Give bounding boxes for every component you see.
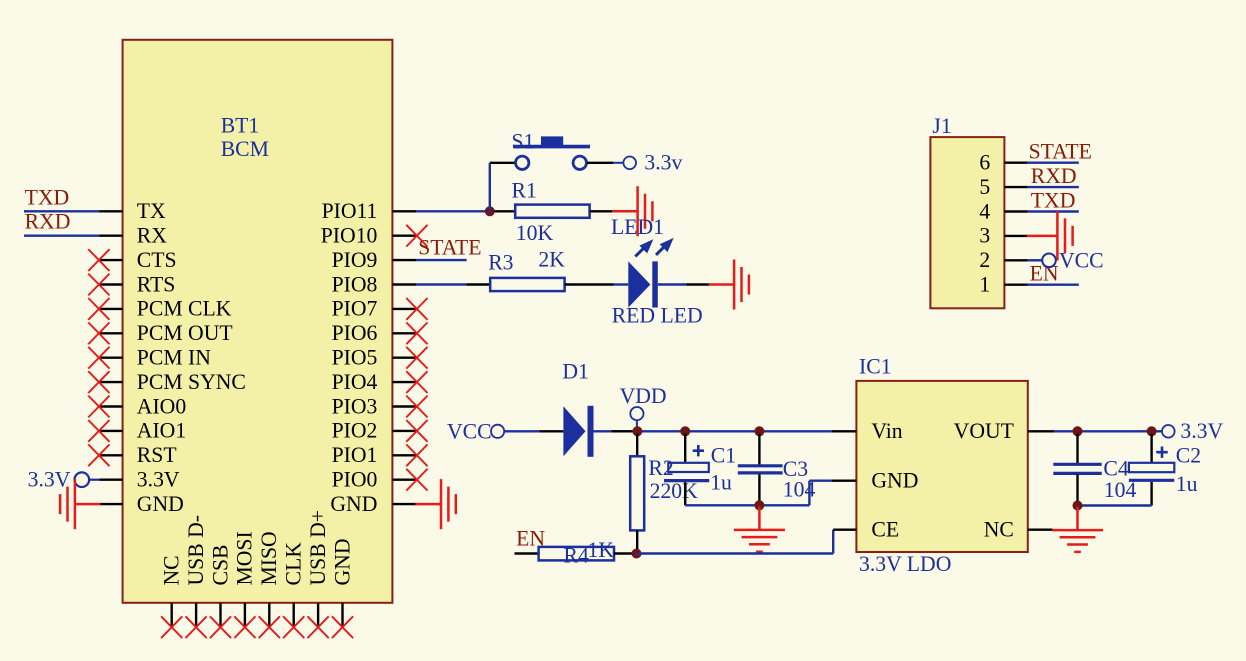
no-connect X on PIO4: [406, 371, 427, 393]
pin CSB (BT1 bottom): [208, 545, 232, 627]
svg-text:MISO: MISO: [257, 531, 281, 585]
svg-text:PIO6: PIO6: [332, 321, 378, 345]
no-connect X on AIO0: [88, 396, 109, 418]
pin PIO6 (BT1 right): [332, 321, 417, 345]
capacitor C2 (polarized): [1129, 444, 1201, 481]
pin 1 (J1): [979, 273, 1027, 297]
pin 2 (J1): [979, 248, 1027, 272]
wire junction to CE pin: [637, 530, 834, 554]
svg-text:4: 4: [979, 199, 990, 223]
pin USB D- (BT1 bottom): [184, 515, 208, 627]
no-connect X on PIO10: [406, 225, 427, 247]
svg-text:MOSI: MOSI: [233, 531, 257, 585]
svg-text:GND: GND: [137, 492, 184, 516]
power port VCC (J1 pin 2): [1028, 248, 1104, 272]
node junction C4/C2 ground: [1073, 501, 1083, 511]
svg-text:PIO10: PIO10: [321, 224, 378, 248]
svg-text:STATE: STATE: [1029, 140, 1092, 164]
svg-text:CSB: CSB: [208, 545, 232, 586]
wire C2 down to ground rail: [1078, 482, 1152, 506]
no-connect X on RTS: [88, 274, 109, 296]
pin PIO4 (BT1 right): [332, 370, 417, 394]
pin NC (IC1): [984, 518, 1053, 542]
pin PIO11 (BT1 right): [322, 199, 417, 223]
no-connect X on bottom GND: [332, 616, 353, 638]
pin AIO0 (BT1 left): [100, 394, 187, 418]
svg-text:PIO5: PIO5: [332, 346, 378, 370]
svg-text:PCM CLK: PCM CLK: [137, 297, 232, 321]
svg-text:1: 1: [979, 273, 990, 297]
net label TXD + wire (J1 pin 4): [1028, 188, 1079, 212]
no-connect X on RST: [88, 444, 109, 466]
svg-text:VDD: VDD: [620, 384, 667, 408]
net label EN + wire: [515, 527, 546, 554]
pin RTS (BT1 left): [100, 272, 176, 296]
node junction at R1/S1 tap: [485, 206, 495, 216]
no-connect X on PIO0: [406, 469, 427, 491]
svg-text:10K: 10K: [516, 221, 554, 245]
no-connect X on PIO2: [406, 420, 427, 442]
svg-text:PCM IN: PCM IN: [137, 346, 211, 370]
pin RST (BT1 left): [100, 443, 177, 467]
svg-text:3.3V: 3.3V: [1180, 419, 1223, 443]
pin 4 (J1): [979, 199, 1027, 223]
svg-text:3.3V: 3.3V: [28, 468, 71, 492]
value 104: [783, 478, 816, 502]
svg-text:GND: GND: [330, 539, 354, 586]
svg-text:TX: TX: [137, 199, 166, 223]
wire C3 down to ground rail: [758, 475, 760, 506]
IC IC1 body (3.3V LDO): [856, 355, 1027, 576]
svg-text:D1: D1: [562, 359, 589, 383]
pin GND (BT1 left): [100, 492, 184, 516]
IC BT1 (BCM Bluetooth module) body: [123, 40, 393, 603]
no-connect X on bottom USB D-: [186, 616, 207, 638]
wire R1 to ground: [590, 210, 613, 212]
svg-text:1u: 1u: [710, 470, 732, 494]
svg-text:GND: GND: [871, 469, 918, 493]
pin PIO1 (BT1 right): [332, 443, 417, 467]
svg-text:3.3v: 3.3v: [644, 151, 682, 175]
pin CLK (BT1 bottom): [282, 542, 306, 627]
value 10K: [516, 221, 554, 245]
svg-text:C1: C1: [711, 443, 736, 467]
wire R3 to LED1: [565, 283, 629, 285]
ground (BT1 left GND pin): [60, 479, 100, 529]
svg-text:GND: GND: [330, 492, 377, 516]
svg-text:PIO1: PIO1: [332, 443, 378, 467]
wire S1 to 3.3v terminal: [587, 162, 623, 164]
svg-text:AIO1: AIO1: [137, 419, 186, 443]
wire ground rail (C1-C3-IC1 GND): [685, 481, 832, 506]
capacitor C4: [1053, 457, 1129, 481]
pin MISO (BT1 bottom): [257, 531, 281, 626]
pin NC (BT1 bottom): [160, 555, 184, 626]
svg-text:5: 5: [979, 175, 990, 199]
svg-text:RED LED: RED LED: [612, 303, 703, 327]
svg-text:PIO4: PIO4: [332, 370, 378, 394]
value 2K: [538, 248, 565, 272]
capacitor C3: [738, 457, 808, 481]
pin PIO5 (BT1 right): [332, 346, 417, 370]
pin PCM OUT (BT1 left): [100, 321, 233, 345]
wire D1 to Vin rail: [594, 430, 832, 432]
ground (right of R1): [612, 186, 652, 236]
svg-text:PIO7: PIO7: [332, 297, 378, 321]
svg-text:PIO0: PIO0: [332, 468, 378, 492]
pin PCM CLK (BT1 left): [100, 297, 232, 321]
pin AIO1 (BT1 left): [100, 419, 187, 443]
ground (right of LED1): [709, 260, 749, 310]
svg-text:USB D-: USB D-: [184, 515, 208, 586]
svg-text:TXD: TXD: [25, 185, 70, 209]
svg-text:1K: 1K: [588, 538, 615, 562]
wire VCC to D1: [504, 430, 563, 432]
wire junction to R1: [494, 210, 515, 212]
LED LED1: [611, 215, 703, 327]
no-connect X on bottom MISO: [259, 616, 280, 638]
pin PIO8 (BT1 right): [332, 272, 417, 296]
power port VDD: [620, 384, 667, 427]
power port 3.3v (button pullup): [623, 151, 682, 175]
value 1K: [588, 538, 615, 562]
svg-text:CLK: CLK: [282, 542, 306, 586]
pin PIO7 (BT1 right): [332, 297, 417, 321]
no-connect X on PCM CLK: [88, 298, 109, 320]
ground (BT1 right GND pin): [415, 479, 455, 529]
svg-text:STATE: STATE: [418, 235, 481, 259]
svg-text:3.3V: 3.3V: [137, 468, 180, 492]
svg-text:RX: RX: [137, 224, 167, 248]
wire C4 down to ground: [1076, 474, 1078, 506]
svg-text:PIO11: PIO11: [322, 199, 378, 223]
pin USB D+ (BT1 bottom): [306, 510, 330, 627]
ground (below C4/C2, NC pin): [1052, 507, 1103, 552]
no-connect X on PIO5: [406, 347, 427, 369]
pin MOSI (BT1 bottom): [233, 531, 257, 626]
wire C1 down to ground rail: [684, 482, 686, 505]
svg-text:NC: NC: [984, 518, 1014, 542]
wire PIO8 to R3: [416, 283, 490, 285]
net label RXD + wire: [24, 210, 100, 236]
svg-text:CTS: CTS: [137, 248, 177, 272]
svg-text:RXD: RXD: [25, 210, 71, 234]
no-connect X on PIO1: [406, 444, 427, 466]
value 220K: [650, 479, 699, 503]
svg-text:S1: S1: [512, 129, 535, 153]
resistor R4: [539, 543, 614, 567]
no-connect X on AIO1: [88, 420, 109, 442]
node junction rail / C1: [680, 426, 690, 436]
svg-text:RXD: RXD: [1031, 164, 1077, 188]
node junction R2/R4/CE: [632, 549, 642, 559]
no-connect X on PIO6: [406, 322, 427, 344]
no-connect X on PCM SYNC: [88, 371, 109, 393]
wire PIO11 to junction: [416, 210, 489, 212]
switch S1: [512, 129, 591, 169]
pin VOUT (IC1): [954, 419, 1054, 443]
no-connect X on bottom CLK: [283, 616, 304, 638]
svg-text:2K: 2K: [538, 248, 565, 272]
node junction rail / C3: [754, 426, 764, 436]
diode D1: [562, 359, 593, 457]
wire junction up to S1: [490, 163, 516, 213]
no-connect X on CTS: [88, 249, 109, 271]
svg-text:3.3V LDO: 3.3V LDO: [859, 552, 951, 576]
svg-text:RTS: RTS: [137, 272, 175, 296]
no-connect X on bottom CSB: [210, 616, 231, 638]
pin GND (IC1): [832, 469, 919, 493]
power port VCC (left of D1): [447, 419, 504, 443]
net label TXD + wire: [24, 185, 100, 211]
ground (J1 pin 3): [1027, 211, 1073, 260]
svg-text:J1: J1: [932, 114, 951, 138]
svg-text:PCM OUT: PCM OUT: [137, 321, 233, 345]
pin RX (BT1 left): [100, 224, 168, 248]
resistor R3: [488, 251, 564, 291]
wire VOUT down to C2: [1150, 434, 1152, 463]
pin PIO9 (BT1 right): [332, 248, 417, 272]
pin PCM SYNC (BT1 left): [100, 370, 246, 394]
svg-text:PIO9: PIO9: [332, 248, 378, 272]
svg-text:TXD: TXD: [1031, 188, 1076, 212]
resistor R2: [630, 456, 674, 530]
pin PIO3 (BT1 right): [332, 394, 417, 418]
pin PIO10 (BT1 right): [321, 224, 417, 248]
svg-text:VCC: VCC: [447, 419, 492, 443]
svg-text:BCM: BCM: [221, 137, 269, 161]
wire VOUT down to C4: [1076, 434, 1078, 465]
no-connect X on bottom USB D+: [308, 616, 329, 638]
connector J1 body: [930, 114, 1004, 308]
pin 3.3V (BT1 left): [100, 468, 180, 492]
wire rail down to R2: [636, 434, 638, 457]
pin PIO2 (BT1 right): [332, 419, 417, 443]
power port 3.3V (left): [28, 468, 100, 492]
no-connect X on bottom NC: [161, 616, 182, 638]
pin GND (BT1 bottom): [330, 539, 354, 627]
svg-text:2: 2: [979, 248, 990, 272]
value 104 (C4): [1104, 478, 1137, 502]
node junction ground rail / GND symbol: [754, 500, 764, 510]
ground (below C3): [734, 506, 785, 551]
no-connect X on bottom MOSI: [234, 616, 255, 638]
capacitor C1 (polarized): [664, 443, 736, 480]
net label STATE + wire (PIO9): [416, 235, 481, 260]
svg-text:220K: 220K: [650, 479, 699, 503]
wire R2 down to EN rail: [636, 530, 638, 553]
svg-text:PIO3: PIO3: [332, 394, 378, 418]
no-connect X on PCM IN: [88, 347, 109, 369]
pin CE (IC1): [833, 518, 899, 542]
no-connect X on PIO3: [406, 396, 427, 418]
net label STATE + wire (J1 pin 6): [1028, 140, 1092, 164]
svg-text:BT1: BT1: [221, 114, 260, 138]
resistor R1: [512, 178, 590, 218]
pin 6 (J1): [979, 151, 1027, 175]
svg-text:AIO0: AIO0: [137, 394, 187, 418]
svg-text:IC1: IC1: [859, 355, 892, 379]
net label RXD + wire (J1 pin 5): [1028, 164, 1079, 188]
pin TX (BT1 left): [100, 199, 167, 223]
net label EN + wire (J1 pin 1): [1028, 262, 1079, 286]
svg-text:R4: R4: [564, 543, 589, 567]
svg-text:PIO2: PIO2: [332, 419, 378, 443]
value 1u: [710, 470, 732, 494]
pin GND (BT1 right): [330, 492, 416, 516]
svg-text:C2: C2: [1176, 444, 1201, 468]
node junction VOUT / C4: [1073, 426, 1083, 436]
wire VOUT rail: [1054, 430, 1162, 432]
svg-text:1u: 1u: [1176, 472, 1198, 496]
svg-text:CE: CE: [871, 518, 899, 542]
svg-text:NC: NC: [160, 555, 184, 585]
svg-text:R1: R1: [512, 178, 537, 202]
svg-text:USB D+: USB D+: [306, 510, 330, 586]
svg-text:RST: RST: [137, 443, 177, 467]
node junction VOUT / C2: [1147, 426, 1157, 436]
wire rail down to C1: [684, 434, 686, 464]
value 1u (C2): [1176, 472, 1198, 496]
svg-text:VCC: VCC: [1059, 248, 1104, 272]
power port 3.3V (output): [1162, 419, 1224, 443]
svg-text:PIO8: PIO8: [332, 272, 378, 296]
svg-text:VOUT: VOUT: [954, 419, 1014, 443]
svg-text:LED1: LED1: [611, 215, 664, 239]
pin PIO0 (BT1 right): [332, 468, 417, 492]
svg-text:R3: R3: [488, 251, 513, 275]
pin CTS (BT1 left): [100, 248, 177, 272]
node junction VDD rail / R2: [632, 426, 642, 436]
no-connect X on PIO7: [406, 298, 427, 320]
svg-text:PCM SYNC: PCM SYNC: [137, 370, 246, 394]
pin PCM IN (BT1 left): [100, 346, 212, 370]
svg-text:Vin: Vin: [871, 419, 902, 443]
svg-text:R2: R2: [648, 456, 673, 480]
wire rail down to C3: [758, 434, 760, 466]
pin 5 (J1): [979, 175, 1027, 199]
pin 3 (J1): [979, 224, 1027, 248]
pin Vin (IC1): [832, 419, 903, 443]
wire R4 to junction: [614, 552, 632, 554]
svg-text:3: 3: [979, 224, 990, 248]
no-connect X on PCM OUT: [88, 322, 109, 344]
wire LED1 to ground: [658, 283, 710, 285]
svg-text:6: 6: [979, 151, 990, 175]
